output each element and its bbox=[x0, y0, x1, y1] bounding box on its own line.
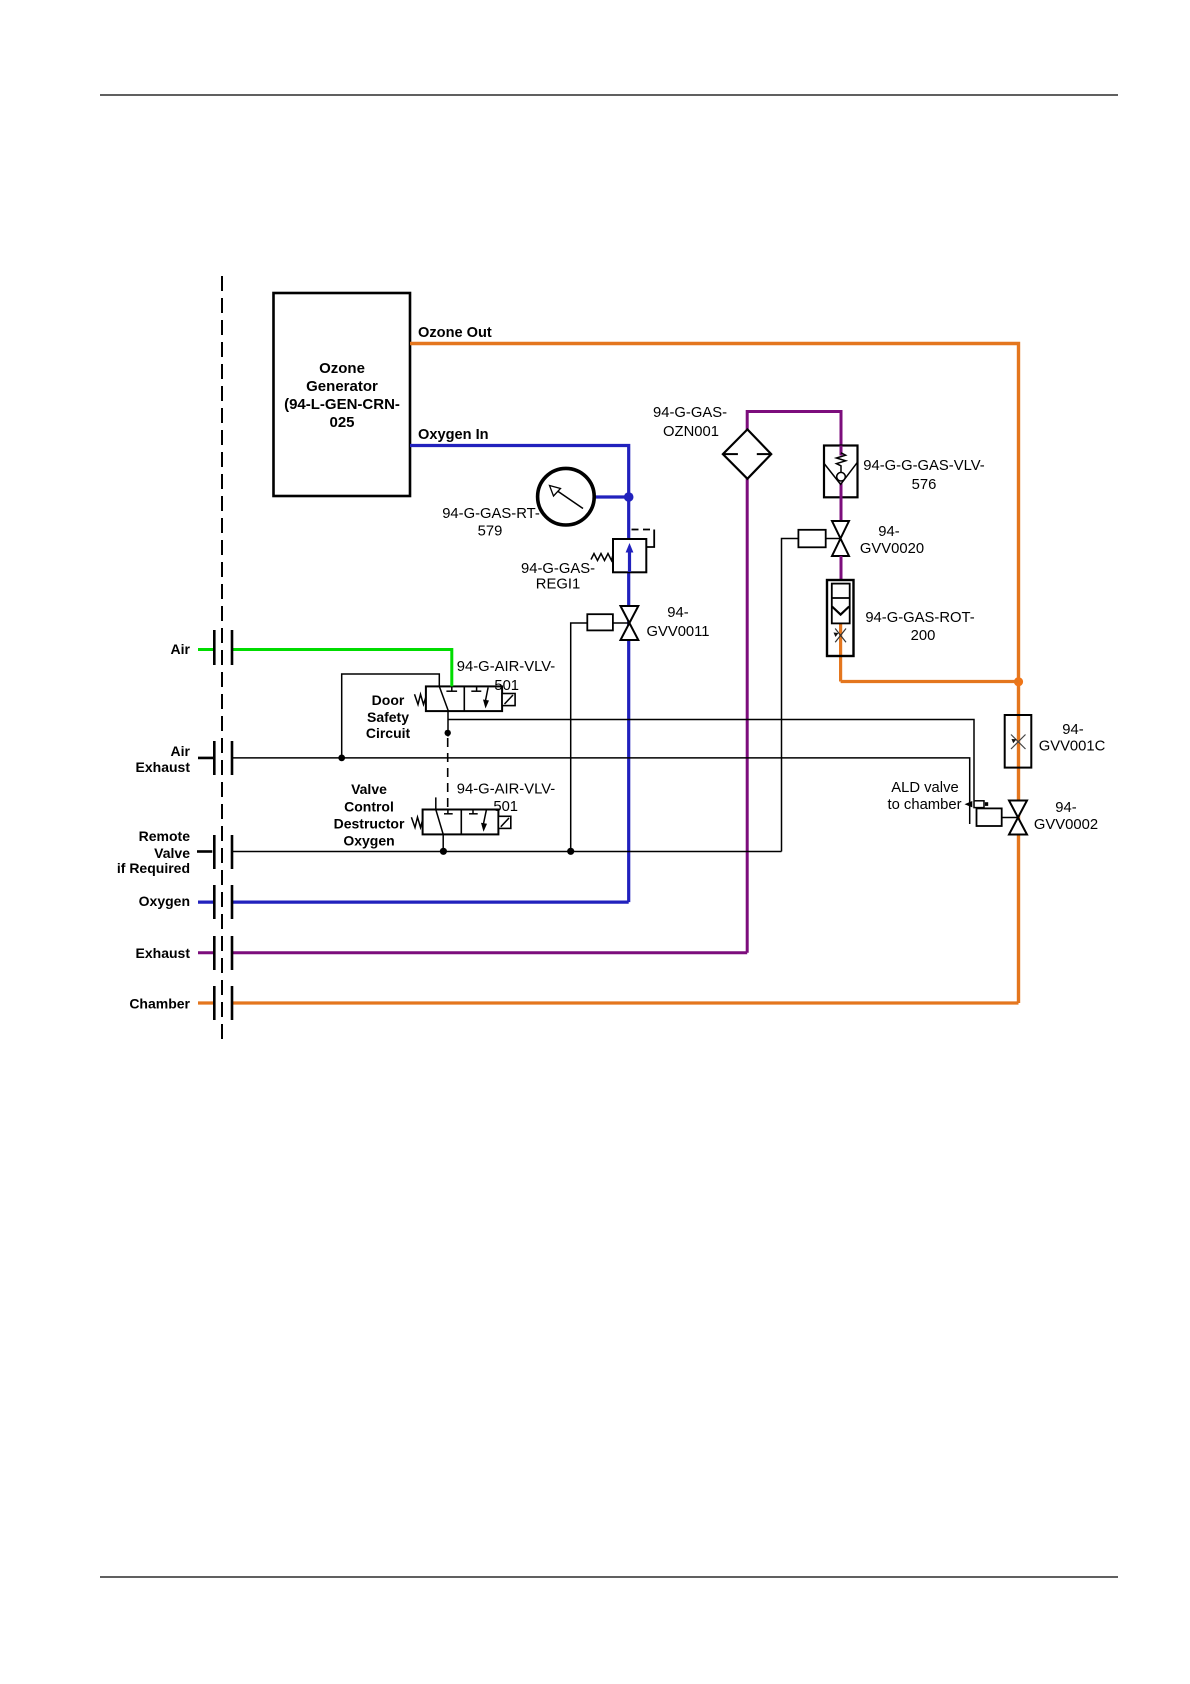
svg-text:GVV0011: GVV0011 bbox=[646, 624, 709, 640]
svg-text:94-G-GAS-ROT-: 94-G-GAS-ROT- bbox=[865, 610, 974, 626]
wire oxygen supply line (blue) bbox=[198, 900, 629, 903]
svg-text:Chamber: Chamber bbox=[129, 996, 190, 1012]
svg-text:94-G-AIR-VLV-: 94-G-AIR-VLV- bbox=[457, 782, 555, 798]
svg-text:Ozone Out: Ozone Out bbox=[418, 325, 492, 341]
svg-text:94-: 94- bbox=[878, 524, 899, 540]
svg-text:94-G-GAS-: 94-G-GAS- bbox=[521, 561, 595, 577]
node pilot junction dot bbox=[445, 730, 451, 736]
svg-text:94-: 94- bbox=[1062, 722, 1083, 738]
svg-text:Destructor: Destructor bbox=[334, 816, 405, 832]
svg-text:Ozone: Ozone bbox=[319, 360, 365, 377]
wire ozone out (orange main) bbox=[410, 344, 1019, 1004]
valve 94-GVV0002 bbox=[977, 801, 1028, 835]
wire rotameter out to main (orange) bbox=[841, 680, 1019, 683]
svg-text:Valve: Valve bbox=[154, 845, 190, 861]
wire remote valve line bbox=[197, 850, 782, 853]
svg-text:Exhaust: Exhaust bbox=[136, 759, 191, 775]
break symbol air exhaust bbox=[214, 741, 232, 775]
check valve 94-G-G-GAS-VLV-576 bbox=[824, 446, 858, 522]
svg-text:to chamber: to chamber bbox=[887, 797, 961, 813]
filter 94-G-GAS-OZN001 bbox=[723, 429, 771, 478]
svg-text:94-: 94- bbox=[667, 605, 688, 621]
node orange junction bbox=[1014, 677, 1023, 686]
wire chamber line (orange) bbox=[198, 1001, 1019, 1004]
svg-text:GVV0020: GVV0020 bbox=[860, 541, 924, 557]
svg-text:Control: Control bbox=[344, 799, 394, 815]
node blue junction at gauge bbox=[624, 492, 634, 502]
wire air line (green) bbox=[198, 650, 452, 687]
svg-text:579: 579 bbox=[478, 524, 503, 540]
svg-text:Valve: Valve bbox=[351, 781, 387, 797]
bottom rule bbox=[100, 1576, 1118, 1578]
ALD valve symbol bbox=[965, 801, 989, 808]
svg-text:REGI1: REGI1 bbox=[536, 577, 580, 593]
svg-text:025: 025 bbox=[329, 414, 354, 431]
svg-text:GVV001C: GVV001C bbox=[1039, 739, 1106, 755]
svg-text:(94-L-GEN-CRN-: (94-L-GEN-CRN- bbox=[284, 396, 400, 413]
break symbol remote valve bbox=[214, 835, 232, 869]
break symbol oxygen bbox=[214, 885, 232, 919]
valve 94-GVV0011 bbox=[571, 606, 639, 852]
break symbol exhaust bbox=[214, 936, 232, 970]
svg-text:OZN001: OZN001 bbox=[663, 424, 719, 440]
svg-text:501: 501 bbox=[494, 678, 519, 694]
solenoid valve 94-G-AIR-VLV-501 (destructor) bbox=[411, 797, 510, 851]
svg-text:Air: Air bbox=[171, 743, 191, 759]
svg-text:Air: Air bbox=[171, 641, 191, 657]
svg-text:94-G-G-GAS-VLV-: 94-G-G-GAS-VLV- bbox=[863, 458, 984, 474]
svg-text:Circuit: Circuit bbox=[366, 725, 411, 741]
wire air exhaust line bbox=[198, 674, 970, 824]
svg-text:ALD valve: ALD valve bbox=[891, 780, 958, 796]
wire exhaust purple main bbox=[747, 412, 841, 953]
regulator 94-G-GAS-REGI1 bbox=[591, 530, 654, 573]
wire oxygen in (blue) bbox=[410, 446, 629, 903]
svg-text:GVV0002: GVV0002 bbox=[1034, 817, 1098, 833]
wire dashed pilot line bbox=[447, 738, 449, 809]
node air exhaust junction bbox=[338, 755, 345, 762]
svg-text:Oxygen: Oxygen bbox=[343, 833, 394, 849]
svg-text:Oxygen In: Oxygen In bbox=[418, 427, 489, 443]
svg-text:94-G-GAS-: 94-G-GAS- bbox=[653, 405, 727, 421]
Ozone Generator box bbox=[274, 293, 411, 496]
svg-text:94-: 94- bbox=[1055, 800, 1076, 816]
pressure gauge 94-G-GAS-RT-579 bbox=[538, 468, 629, 525]
valve 94-GVV0020 bbox=[782, 521, 850, 852]
node junction GVV0011 control bbox=[567, 848, 574, 855]
svg-text:Remote: Remote bbox=[139, 828, 191, 844]
break symbol air bbox=[214, 630, 232, 665]
wire control line from door valve to ALD valve bbox=[448, 711, 974, 800]
solenoid valve 94-G-AIR-VLV-501 (door safety) bbox=[415, 686, 516, 711]
rotameter 94-G-GAS-ROT-200 bbox=[827, 556, 854, 682]
svg-text:Safety: Safety bbox=[367, 709, 409, 725]
svg-text:if Required: if Required bbox=[117, 860, 190, 876]
svg-text:94-G-AIR-VLV-: 94-G-AIR-VLV- bbox=[457, 659, 555, 675]
svg-text:200: 200 bbox=[911, 628, 936, 644]
svg-text:501: 501 bbox=[493, 799, 518, 815]
wire exhaust line (purple) bbox=[198, 951, 747, 954]
dashed page boundary line bbox=[221, 276, 223, 1040]
top rule bbox=[100, 94, 1118, 96]
valve 94-GVV001C bbox=[1005, 715, 1032, 768]
svg-text:94-G-GAS-RT-: 94-G-GAS-RT- bbox=[442, 506, 540, 522]
svg-text:576: 576 bbox=[912, 477, 937, 493]
svg-text:Oxygen: Oxygen bbox=[139, 893, 190, 909]
svg-text:Generator: Generator bbox=[306, 378, 378, 395]
svg-text:Exhaust: Exhaust bbox=[136, 945, 191, 961]
svg-text:Door: Door bbox=[372, 692, 405, 708]
node junction below destructor valve bbox=[440, 848, 447, 855]
break symbol chamber bbox=[214, 986, 232, 1020]
